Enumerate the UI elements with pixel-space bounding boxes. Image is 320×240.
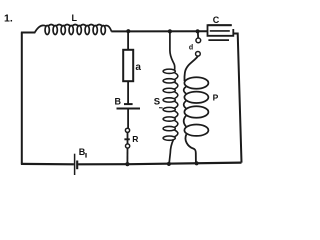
wire: top rail right segment (L to capacitor) bbox=[111, 30, 207, 32]
node: junction dot top rail / spark gap bbox=[196, 29, 200, 33]
wire: rail to coil S bbox=[170, 31, 175, 70]
capacitor C: inner plate line bbox=[210, 30, 230, 32]
wire: resistor a to battery B bbox=[127, 81, 129, 104]
svg-text:C: C bbox=[213, 15, 220, 25]
svg-text:1.: 1. bbox=[4, 13, 13, 25]
capacitor C: body box bbox=[208, 25, 234, 36]
battery B1: long plate bbox=[74, 154, 76, 175]
node: junction dot top rail / coil S bbox=[168, 29, 172, 33]
spark gap d: lower electrode bbox=[196, 51, 201, 56]
svg-text:S: S bbox=[154, 96, 160, 107]
svg-text:d: d bbox=[189, 44, 193, 51]
capacitor C: lower plate line bbox=[208, 39, 229, 41]
inductor L bbox=[34, 25, 111, 35]
svg-text:B: B bbox=[115, 96, 122, 106]
wire: left rail bbox=[21, 33, 23, 164]
node: junction dot bottom rail / coil P bbox=[195, 161, 199, 165]
wire: bottom rail left segment (corner to battery B1) bbox=[21, 163, 74, 166]
spark gap d: upper electrode bbox=[196, 38, 201, 43]
coil S (secondary winding) bbox=[163, 69, 178, 140]
wire: bottom rail right segment (battery B1 to right corner) bbox=[78, 163, 241, 165]
wire: middle branch top (rail to resistor a) bbox=[127, 31, 129, 50]
interrupter R: lower contact circle bbox=[126, 144, 130, 148]
wire: between R contacts bbox=[127, 132, 129, 143]
stray scan mark near S bbox=[159, 107, 163, 109]
capacitor C: top plate line bbox=[208, 24, 232, 26]
battery B: long plate bbox=[117, 108, 141, 110]
svg-text:R: R bbox=[132, 134, 138, 144]
svg-text:L: L bbox=[72, 13, 78, 23]
wire: coil S to bottom rail bbox=[169, 140, 173, 164]
interrupter R: upper contact circle bbox=[125, 128, 129, 132]
node: junction dot top rail / middle branch bbox=[126, 29, 130, 33]
wire: battery B to interrupter R bbox=[127, 109, 129, 129]
wire: spark gap to coil P bbox=[184, 56, 197, 81]
wire: right rail (capacitor output down to bottom rail) bbox=[233, 34, 241, 163]
node: junction dot bottom rail / middle branch bbox=[125, 162, 129, 166]
battery B1: short plate bbox=[76, 161, 78, 170]
node: junction dot bottom rail / coil S bbox=[167, 162, 171, 166]
wire: top rail left segment (corner to L) bbox=[21, 32, 35, 34]
battery B: short plate bbox=[124, 103, 133, 105]
svg-text:B: B bbox=[79, 147, 86, 157]
coil P (primary winding) bbox=[184, 77, 209, 136]
wire: rail to spark gap upper electrode bbox=[197, 31, 199, 38]
interrupter R: crossbar tick bbox=[124, 138, 129, 140]
wire: interrupter R to bottom rail bbox=[126, 148, 128, 164]
svg-text:a: a bbox=[135, 62, 141, 73]
resistor a (box) bbox=[123, 50, 133, 81]
wire: coil P to bottom rail bbox=[185, 134, 195, 163]
svg-text:P: P bbox=[213, 92, 219, 102]
